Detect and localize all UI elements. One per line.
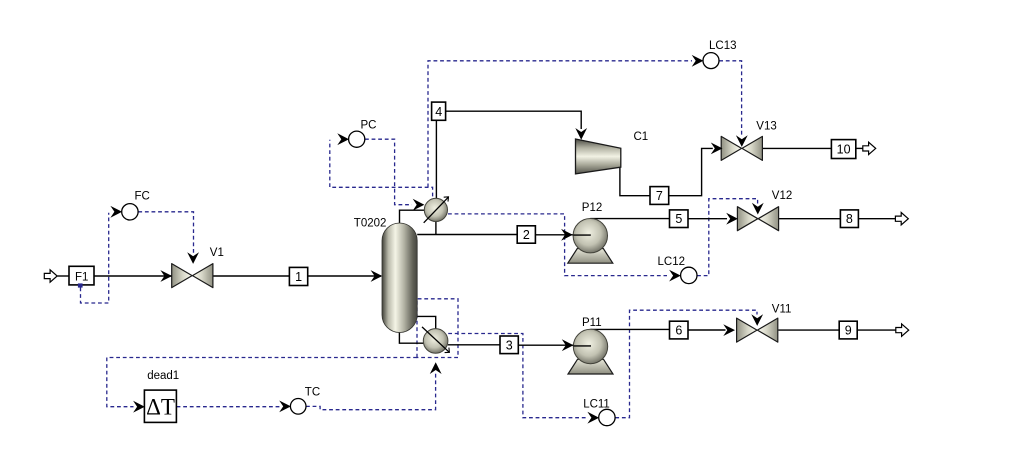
svg-text:PC: PC bbox=[361, 119, 377, 131]
svg-text:V13: V13 bbox=[756, 121, 776, 133]
wire condenser bottom drop leg bbox=[435, 222, 437, 235]
wire reflux/distillate header column to box 2 bbox=[417, 234, 517, 236]
svg-text:T0202: T0202 bbox=[354, 217, 387, 229]
svg-text:C1: C1 bbox=[634, 131, 649, 143]
wire TC measurement: long run left from reboiler box, down, right to dead1 bbox=[107, 358, 417, 407]
node 9 bbox=[839, 321, 857, 339]
svg-text:10: 10 bbox=[837, 143, 851, 157]
compressor C1 bbox=[576, 139, 621, 174]
arrow TC to reboiler (up) bbox=[430, 362, 442, 374]
svg-text:1: 1 bbox=[295, 270, 302, 284]
wire box 7 to valve V13 bbox=[669, 148, 713, 195]
arrow into LC13 bbox=[692, 55, 704, 67]
wire box 3 to pump P11 bbox=[518, 344, 590, 346]
wire feed inlet to F1 bbox=[58, 275, 70, 277]
svg-text:P11: P11 bbox=[582, 317, 602, 329]
arrow into FC bbox=[110, 206, 122, 218]
wire box 9 to outlet arrow bbox=[857, 329, 896, 331]
wire TC output: right, jog down, right, up to reboiler bbox=[306, 372, 436, 410]
wire column bottom draw to reboiler bbox=[417, 316, 436, 328]
wire reboiler to box 3 bbox=[448, 344, 500, 346]
svg-text:V12: V12 bbox=[772, 190, 792, 202]
svg-text:P12: P12 bbox=[582, 202, 602, 214]
arrow into LC11 bbox=[587, 412, 599, 424]
node F1 bbox=[69, 266, 94, 285]
wire valve V11 to box 9 bbox=[778, 329, 839, 331]
node 1 bbox=[289, 267, 307, 285]
wire box 1 to column T0202 bbox=[308, 275, 381, 277]
arrow into LC12 bbox=[669, 270, 681, 282]
arrow PC to condenser bbox=[413, 199, 425, 211]
wire box 5 to valve V12 bbox=[688, 218, 727, 220]
node 2 bbox=[517, 226, 535, 243]
svg-text:LC13: LC13 bbox=[709, 40, 737, 52]
svg-text:dead1: dead1 bbox=[147, 370, 179, 382]
wire column top vapor to condenser bbox=[400, 210, 425, 223]
svg-text:7: 7 bbox=[656, 189, 663, 203]
wire FC measurement: F1 tap down, right, up to FC bbox=[81, 213, 109, 303]
wire valve V1 to box 1 bbox=[213, 275, 289, 277]
svg-text:LC11: LC11 bbox=[583, 398, 610, 410]
outlet arrow stream 9 bbox=[896, 324, 909, 336]
wire box 6 to valve V11 bbox=[688, 329, 726, 331]
arrow into valve V1 bbox=[160, 270, 172, 282]
F1 measurement tap square bbox=[78, 283, 83, 287]
valve V11 bbox=[737, 318, 778, 342]
valve V1 bbox=[172, 264, 213, 288]
wire LC11 output: LC11 right, up, right, down to valve V11 bbox=[615, 310, 757, 418]
wire F1 to valve V1 bbox=[94, 275, 172, 277]
valve V13 bbox=[721, 136, 762, 160]
svg-text:2: 2 bbox=[523, 228, 530, 242]
column T0202 bbox=[382, 223, 417, 333]
wire LC12 output: LC12 right, up, right, down to valve V12 bbox=[697, 199, 758, 276]
arrow into TC bbox=[279, 401, 291, 413]
svg-text:TC: TC bbox=[305, 387, 320, 399]
svg-text:6: 6 bbox=[675, 324, 682, 338]
svg-text:LC12: LC12 bbox=[658, 256, 686, 268]
svg-text:V11: V11 bbox=[772, 303, 792, 315]
node 5 bbox=[670, 210, 689, 228]
svg-text:F1: F1 bbox=[75, 272, 88, 284]
controller PC bbox=[349, 131, 365, 147]
wire PC output: PC right, down, right to condenser bbox=[365, 139, 412, 205]
arrow into valve V11 bbox=[723, 324, 735, 336]
wire valve V12 to box 8 bbox=[779, 218, 841, 220]
wire reboiler return to column bbox=[399, 331, 423, 343]
arrow FC to V1 (down) bbox=[187, 252, 199, 264]
arrow LC13 to V13 (down) bbox=[736, 135, 748, 147]
wire FC output: FC right, down to valve V1 bbox=[138, 212, 193, 253]
node 3 bbox=[500, 336, 518, 354]
node 7 bbox=[650, 187, 669, 205]
wire box 8 to outlet arrow bbox=[858, 218, 895, 220]
node 10 bbox=[831, 140, 855, 159]
arrow into PC bbox=[337, 133, 349, 145]
reboiler selection dashed box bbox=[417, 299, 458, 358]
condenser exchanger bbox=[424, 197, 449, 223]
wire valve V13 to box 10 bbox=[762, 147, 832, 149]
wire pump P12 outlet to box 5 bbox=[590, 218, 669, 220]
pump P11 bbox=[568, 329, 613, 374]
svg-text:4: 4 bbox=[435, 105, 442, 119]
wire compressor outlet to box 7 bbox=[620, 167, 650, 195]
wire box 4 to compressor C1 bbox=[446, 111, 582, 129]
controller FC bbox=[122, 204, 138, 220]
arrow into pump P12 bbox=[561, 229, 573, 241]
controller LC12 bbox=[681, 267, 697, 283]
wire LC13 measurement: down-leg at x=428 and long run to LC13 bbox=[428, 61, 692, 188]
wire condenser top to box 4 bbox=[435, 120, 437, 198]
dead1 block bbox=[144, 390, 176, 422]
wire dead1 to TC bbox=[177, 406, 282, 408]
wire LC13 output: LC13 right, down to valve V13 bbox=[719, 61, 741, 135]
reboiler exchanger bbox=[422, 327, 449, 353]
arrow into column bbox=[371, 270, 383, 282]
svg-text:V1: V1 bbox=[210, 247, 224, 259]
svg-text:5: 5 bbox=[675, 212, 682, 226]
node 6 bbox=[670, 321, 689, 339]
arrow into valve V13 bbox=[711, 143, 723, 155]
controller LC13 bbox=[703, 53, 719, 69]
arrow LC12 to V12 (down) bbox=[752, 203, 764, 215]
valve V12 bbox=[737, 207, 778, 231]
arrow into compressor (down) bbox=[575, 128, 587, 140]
arrow into dead1 bbox=[133, 401, 145, 413]
svg-text:ΔT: ΔT bbox=[146, 395, 175, 420]
svg-text:FC: FC bbox=[135, 191, 150, 203]
outlet arrow stream 10 bbox=[863, 142, 876, 154]
wire LC11 measurement: reboiler right, down, right to LC11 bbox=[448, 334, 587, 418]
svg-text:8: 8 bbox=[846, 212, 853, 226]
wire LC12 measurement: condenser right, down, right to LC12 bbox=[448, 214, 667, 276]
wire box 2 to pump P12 bbox=[535, 234, 590, 236]
svg-text:3: 3 bbox=[506, 338, 513, 352]
arrow into valve V12 bbox=[726, 213, 738, 225]
wire pump P11 outlet to box 6 bbox=[591, 328, 670, 330]
wire PC measurement: condenser top up, left, up to PC bbox=[330, 140, 433, 197]
node 4 bbox=[432, 102, 446, 120]
node 8 bbox=[840, 210, 858, 228]
pump P12 bbox=[568, 219, 613, 264]
controller LC11 bbox=[599, 409, 615, 425]
feed inlet block arrow bbox=[44, 270, 57, 282]
svg-text:9: 9 bbox=[845, 324, 852, 338]
controller TC bbox=[290, 399, 306, 415]
arrow into pump P11 bbox=[562, 339, 574, 351]
wire box 10 to outlet arrow bbox=[856, 147, 864, 149]
outlet arrow stream 8 bbox=[895, 213, 908, 225]
arrow LC11 to V11 (down) bbox=[751, 314, 763, 326]
